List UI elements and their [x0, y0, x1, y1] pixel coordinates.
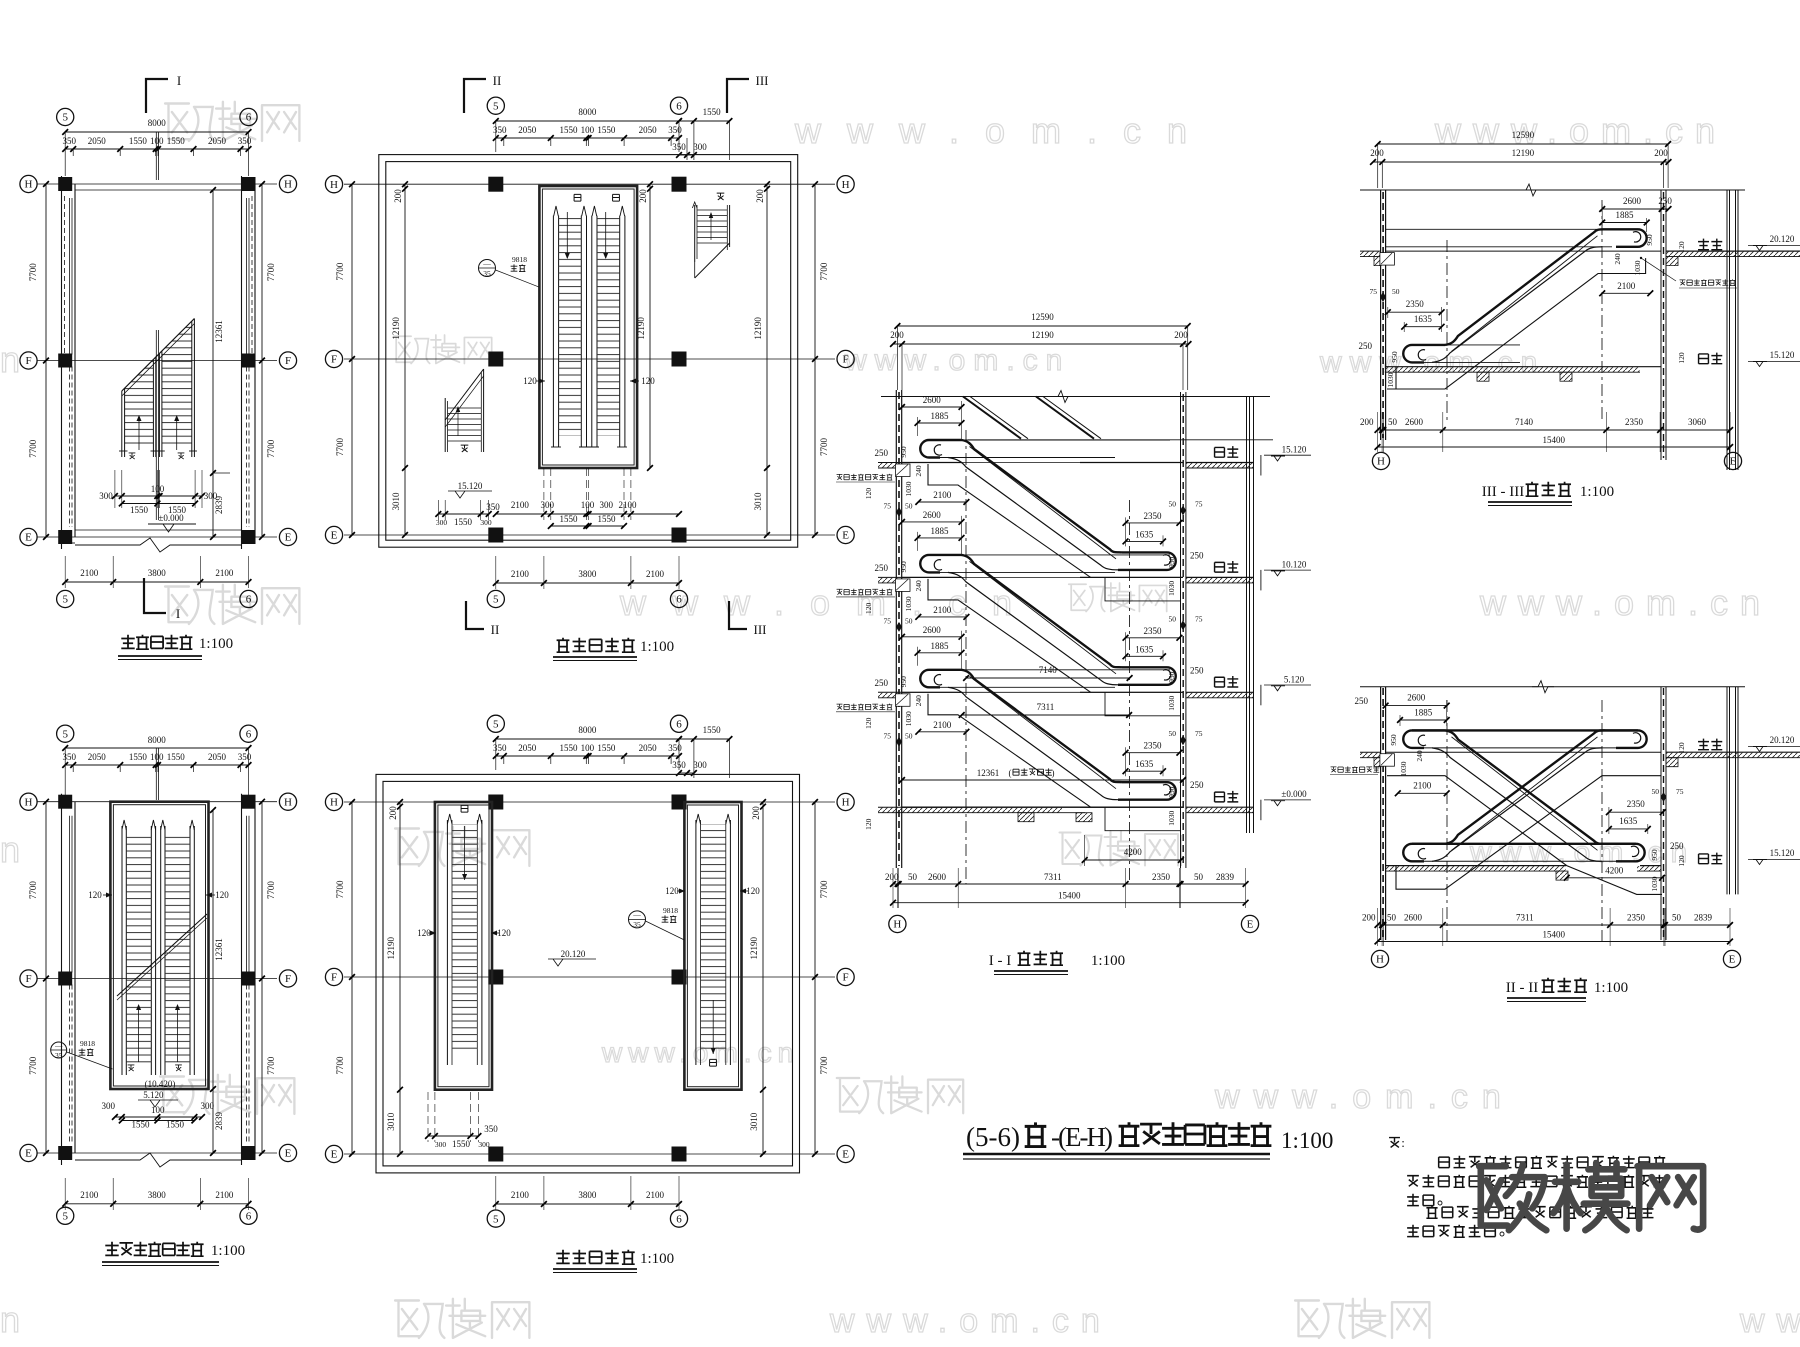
- svg-text:6: 6: [246, 1211, 252, 1223]
- plan5 dim row: [496, 755, 679, 757]
- sec33 escalator band: [1403, 345, 1445, 363]
- svg-text:2050: 2050: [88, 136, 107, 146]
- plan1 centre pair line top: [155, 132, 157, 180]
- plan23 right wall: [241, 794, 243, 1165]
- plan5 bubble H left: [325, 793, 342, 810]
- svg-text:250: 250: [875, 678, 889, 688]
- svg-text:240: 240: [1415, 750, 1424, 762]
- svg-text:1550: 1550: [454, 517, 473, 527]
- svg-text:2050: 2050: [518, 743, 537, 753]
- svg-text:www.om.cn: www.om.cn: [1434, 110, 1727, 151]
- svg-text:15400: 15400: [1543, 435, 1566, 445]
- svg-text:75: 75: [1370, 287, 1378, 296]
- plan23 column F5: [58, 972, 72, 986]
- svg-text:2600: 2600: [1407, 693, 1426, 703]
- sec33 dims 2350 1635: [1388, 311, 1442, 313]
- plan4 bubble H left: [325, 176, 342, 193]
- svg-text:): ): [1052, 768, 1055, 778]
- svg-text:100: 100: [581, 125, 595, 135]
- watermark row 1: [165, 102, 299, 141]
- svg-text:www.om.cn: www.om.cn: [1739, 1302, 1800, 1340]
- svg-text:250: 250: [1658, 196, 1672, 206]
- sec22 top cut line: [1360, 686, 1745, 688]
- plan23 bubble 6 top: [240, 725, 257, 742]
- svg-text:I: I: [176, 606, 180, 621]
- sec22 bubble H: [1371, 950, 1388, 967]
- svg-text:1885: 1885: [931, 641, 950, 651]
- plan5 dim 7700 left: [351, 802, 353, 1154]
- plan1 escalator label shang right: [178, 453, 185, 459]
- plan23 axis E: [37, 1152, 277, 1154]
- svg-text:www.om.cn: www.om.cn: [829, 1302, 1112, 1340]
- plan4 section mark II bottom: [466, 601, 484, 629]
- plan23 bubble F left: [20, 970, 37, 987]
- plan4 bubble E left: [325, 526, 342, 543]
- svg-text:H: H: [25, 796, 33, 808]
- plan5 dim 8000: [496, 738, 679, 740]
- main title underline: [963, 1153, 1270, 1156]
- plan5 axis H: [344, 801, 835, 803]
- plan5 bubble 6 top: [670, 715, 687, 732]
- svg-text:1:100: 1:100: [1580, 484, 1614, 500]
- svg-text:2839: 2839: [214, 1112, 224, 1131]
- svg-text:100: 100: [581, 500, 595, 510]
- sec11 power inlet labels left: [837, 474, 843, 479]
- svg-text:1:100: 1:100: [640, 1251, 674, 1267]
- svg-text:15400: 15400: [1543, 930, 1566, 940]
- svg-text:15.120: 15.120: [1770, 848, 1795, 858]
- plan4 outer wall: [379, 155, 798, 548]
- plan5 dim 12190 3010 right: [762, 802, 764, 1154]
- plan4 bottom-left stair: [444, 398, 446, 452]
- svg-text:7700: 7700: [335, 262, 345, 281]
- svg-text:1030: 1030: [1167, 581, 1176, 596]
- svg-text:F: F: [331, 972, 337, 984]
- sec11 escalator 1F-2F: [940, 669, 1170, 671]
- plan1 wall lines under H and above E: [75, 189, 242, 191]
- sec11 top dim 12190 and 200s: [893, 343, 1189, 345]
- sec22 escalator band down (left high to right low): [1403, 730, 1445, 748]
- svg-text:8000: 8000: [148, 118, 167, 128]
- plan1 title: [121, 635, 134, 649]
- svg-text:5.120: 5.120: [1284, 674, 1305, 684]
- svg-text:12190: 12190: [636, 317, 646, 340]
- svg-text:2100: 2100: [511, 1190, 530, 1200]
- svg-text:50: 50: [1169, 729, 1177, 738]
- sec22 floor5 line and slabs: [1386, 751, 1661, 753]
- svg-text:5: 5: [62, 1211, 68, 1223]
- svg-text:1:100: 1:100: [640, 639, 674, 655]
- sec22 bubble E: [1723, 950, 1740, 967]
- plan1 right wall: [241, 176, 243, 549]
- sec22 wall niche floor5: [1380, 754, 1395, 767]
- svg-text:2839: 2839: [1216, 872, 1235, 882]
- sec22 power inlet label left: [1331, 767, 1337, 772]
- plan1 bubble 5 bottom: [57, 590, 74, 607]
- plan23 title: [105, 1242, 118, 1256]
- plan5 left shaft escalator: [446, 820, 448, 1065]
- plan1 escalator up arrows: [138, 417, 140, 450]
- svg-text:III - III: III - III: [1482, 484, 1524, 500]
- svg-text:E: E: [285, 532, 292, 544]
- svg-text:E: E: [842, 1149, 849, 1161]
- svg-text:3060: 3060: [1688, 417, 1707, 427]
- plan4 dim 200 12190 right inner: [649, 184, 651, 468]
- svg-text:—: —: [54, 1041, 63, 1050]
- plan5 outer wall: [376, 774, 800, 1173]
- svg-text:250: 250: [1190, 665, 1204, 675]
- svg-text:2600: 2600: [1405, 417, 1424, 427]
- svg-text:I - I: I - I: [989, 953, 1012, 969]
- svg-text:300: 300: [480, 518, 492, 527]
- plan1 axis E: [37, 536, 277, 538]
- svg-text:F: F: [285, 355, 291, 367]
- plan1 bubble F right: [279, 352, 296, 369]
- plan4 bottom centre dims: [496, 513, 679, 515]
- svg-text:2050: 2050: [518, 125, 537, 135]
- svg-text:1:100: 1:100: [1091, 953, 1125, 969]
- svg-text:E: E: [1730, 456, 1737, 468]
- sec22 escalator band up (left low to right high): [1403, 844, 1445, 862]
- svg-text:250: 250: [1359, 341, 1373, 351]
- svg-text:2600: 2600: [1404, 913, 1423, 923]
- svg-text:E: E: [842, 530, 849, 542]
- svg-text:7311: 7311: [1516, 913, 1534, 923]
- svg-text:15400: 15400: [1058, 891, 1081, 901]
- plan4 axis F: [344, 358, 835, 360]
- svg-text:35: 35: [483, 269, 491, 278]
- svg-text:250: 250: [1190, 550, 1204, 560]
- sec33 dims top right 2600 1885 250: [1602, 208, 1668, 210]
- svg-text:75: 75: [884, 502, 892, 511]
- svg-text:950: 950: [1167, 557, 1176, 569]
- svg-text:2350: 2350: [1406, 299, 1425, 309]
- sec11 escalator 3F-4F: [940, 439, 1170, 441]
- svg-text:12361: 12361: [977, 768, 1000, 778]
- sec33 bottom chain: [1378, 429, 1731, 431]
- svg-text:350: 350: [672, 760, 686, 770]
- svg-text:120: 120: [88, 890, 102, 900]
- svg-text:2100: 2100: [646, 569, 665, 579]
- svg-text:1030: 1030: [1650, 876, 1659, 891]
- plan4 dim 8000: [496, 120, 679, 122]
- plan5 left shaft: [435, 802, 492, 1090]
- svg-text:2350: 2350: [1625, 417, 1644, 427]
- svg-text:2350: 2350: [1627, 913, 1646, 923]
- sec33 dim 2100: [1602, 292, 1650, 294]
- svg-text:250: 250: [875, 448, 889, 458]
- notes line 2: [1407, 1176, 1419, 1187]
- plan1 axis F: [37, 360, 277, 362]
- svg-text:240: 240: [914, 580, 923, 592]
- plan5 bubble H right: [837, 793, 854, 810]
- svg-text:2050: 2050: [88, 752, 107, 762]
- svg-text:www.om.cn: www.om.cn: [1214, 1078, 1515, 1116]
- svg-text:300: 300: [200, 1101, 214, 1111]
- plan5 rail bubble 9818: [629, 911, 646, 928]
- plan23 left wall: [61, 794, 63, 1165]
- plan1 bubble E right: [279, 528, 296, 545]
- svg-text:2100: 2100: [215, 568, 234, 578]
- plan5 left shaft label xia: [461, 805, 468, 812]
- svg-text:50: 50: [1387, 913, 1397, 923]
- svg-text:1:100: 1:100: [1594, 980, 1628, 996]
- svg-text:1030: 1030: [904, 481, 913, 496]
- svg-text:7700: 7700: [266, 1056, 276, 1075]
- svg-text:F: F: [25, 973, 31, 985]
- plan4 stair label shang: [717, 193, 725, 200]
- svg-text:2050: 2050: [208, 752, 227, 762]
- plan4 rail bubble 9818: [479, 260, 496, 277]
- svg-text:5: 5: [493, 100, 499, 112]
- svg-text:350: 350: [238, 752, 252, 762]
- plan5 right shaft label xia: [710, 1059, 717, 1066]
- plan5 columns: [488, 795, 503, 810]
- svg-text:15.120: 15.120: [1282, 445, 1307, 455]
- svg-text:5: 5: [493, 1213, 499, 1225]
- plan5 bubble 5 bottom: [487, 1210, 504, 1227]
- svg-text:350: 350: [486, 502, 500, 512]
- plan23 escalator tips top: [122, 820, 126, 830]
- svg-text:1:100: 1:100: [1281, 1128, 1333, 1153]
- svg-text:—: —: [482, 259, 491, 268]
- sec33 bubble H: [1372, 452, 1389, 469]
- plan4 top-right stair: [694, 205, 696, 262]
- svg-text:www.om.cn: www.om.cn: [0, 829, 32, 870]
- sec11 wall niches at floors: [896, 464, 911, 477]
- plan23 up arrows: [138, 1006, 140, 1062]
- svg-text:120: 120: [1677, 241, 1686, 253]
- svg-text:2050: 2050: [639, 125, 658, 135]
- svg-text:1550: 1550: [167, 136, 186, 146]
- svg-text:6: 6: [676, 1213, 682, 1225]
- plan4 bubble 5 bottom: [487, 590, 504, 607]
- svg-text:350: 350: [62, 136, 76, 146]
- plan4 dim row 350-2050-1550-100-1550-2050-350 +right 1550: [496, 137, 679, 139]
- svg-text:20.120: 20.120: [1770, 234, 1795, 244]
- svg-text:±0.000: ±0.000: [158, 513, 184, 523]
- svg-text:120: 120: [1677, 855, 1686, 867]
- plan4 escalator bottom hooks: [552, 440, 554, 447]
- plan1 bottom dim chain 2100 3800 2100: [65, 581, 248, 583]
- plan23 column E6: [242, 1146, 256, 1160]
- plan1 grid bubble 5 top: [57, 108, 74, 125]
- svg-text:3800: 3800: [578, 1190, 597, 1200]
- svg-text:H: H: [330, 797, 338, 809]
- sec11 floor4 balustrade extension: [968, 439, 1273, 441]
- plan23 escalator feet bottom: [121, 1068, 123, 1075]
- plan23 break symbol bottom: [75, 1153, 242, 1167]
- svg-text:12361: 12361: [214, 320, 224, 343]
- sec11 centreline verticals: [965, 430, 967, 884]
- svg-text:12190: 12190: [749, 936, 759, 959]
- svg-text:2100: 2100: [80, 1190, 99, 1200]
- plan23 dim 7700 left: [45, 802, 47, 1153]
- sec11 left wall: [895, 390, 897, 868]
- svg-text:75: 75: [1195, 614, 1203, 623]
- svg-text:250: 250: [875, 563, 889, 573]
- svg-text:2050: 2050: [208, 136, 227, 146]
- big grey watermark oumowang: [1479, 1163, 1703, 1230]
- sec22 right wall: [1660, 687, 1662, 940]
- svg-text:15.120: 15.120: [1770, 350, 1795, 360]
- svg-text:7311: 7311: [1037, 702, 1055, 712]
- svg-text:E: E: [25, 532, 32, 544]
- plan1 dim 8000: [65, 131, 248, 133]
- plan23 shaft border: [110, 802, 208, 1089]
- svg-text:120: 120: [864, 818, 873, 830]
- svg-text:50: 50: [1169, 614, 1177, 623]
- svg-text:250: 250: [1355, 696, 1369, 706]
- svg-text:6: 6: [246, 594, 252, 606]
- plan4 bubble F right: [837, 350, 854, 367]
- svg-text:1030: 1030: [1399, 761, 1408, 776]
- svg-text:7700: 7700: [819, 438, 829, 457]
- sec11 top dim 12590: [897, 325, 1187, 327]
- plan4 escalator rungs: [559, 218, 582, 436]
- plan4 label xia x2: [574, 194, 581, 201]
- svg-text:2600: 2600: [928, 872, 947, 882]
- svg-text:250: 250: [1670, 841, 1684, 851]
- sec33 floor4 line and slab: [1386, 366, 1661, 368]
- svg-text:250: 250: [1190, 780, 1204, 790]
- plan5 bubble F right: [837, 968, 854, 985]
- svg-text:6: 6: [676, 594, 682, 606]
- svg-text:2100: 2100: [80, 568, 99, 578]
- svg-text:H: H: [842, 797, 850, 809]
- plan4 section mark III bottom: [729, 601, 747, 629]
- sec11 left dims escalator1: [902, 406, 962, 408]
- plan4 section mark III top: [727, 79, 749, 113]
- svg-text:F: F: [843, 354, 849, 366]
- svg-text:1885: 1885: [931, 411, 950, 421]
- svg-text:100: 100: [150, 752, 164, 762]
- sec11 bottom dim chain: [893, 883, 1246, 885]
- svg-text:120: 120: [523, 376, 537, 386]
- svg-text:1635: 1635: [1414, 314, 1433, 324]
- svg-text:50: 50: [905, 731, 913, 740]
- plan23 bottom chain 2100 3800 2100: [65, 1203, 248, 1205]
- svg-text:7700: 7700: [266, 439, 276, 458]
- svg-text:12590: 12590: [1512, 130, 1535, 140]
- svg-text:12190: 12190: [386, 936, 396, 959]
- svg-text:7700: 7700: [28, 439, 38, 458]
- svg-text:H: H: [330, 179, 338, 191]
- svg-text:2100: 2100: [1413, 781, 1432, 791]
- plan1 break symbol bottom: [75, 538, 242, 552]
- plan5 dim 7700 right: [814, 802, 816, 1154]
- svg-text:2100: 2100: [511, 500, 530, 510]
- svg-text:1885: 1885: [931, 526, 950, 536]
- svg-text:E: E: [1729, 954, 1736, 966]
- svg-text:3010: 3010: [391, 492, 401, 511]
- svg-text:3010: 3010: [753, 492, 763, 511]
- watermark row 5: [160, 1075, 294, 1114]
- plan23 dim 12361 2839: [212, 810, 214, 1153]
- notes header zhu: [1389, 1138, 1400, 1148]
- plan1 section mark I bottom: [144, 578, 166, 613]
- sec33 floor5 line and slabs: [1386, 250, 1661, 252]
- svg-text:III: III: [756, 73, 769, 88]
- svg-text:—: —: [632, 910, 641, 919]
- svg-text:1550: 1550: [132, 1120, 151, 1130]
- svg-text:7700: 7700: [819, 262, 829, 281]
- svg-text:300: 300: [541, 500, 555, 510]
- svg-text:2350: 2350: [1144, 511, 1163, 521]
- svg-text:50: 50: [1392, 287, 1400, 296]
- svg-text:300: 300: [435, 1140, 447, 1149]
- plan5 dim 12190 3010 left: [399, 802, 401, 1154]
- svg-text:300: 300: [478, 1140, 490, 1149]
- sec33 left wall: [1380, 190, 1382, 440]
- svg-text:300: 300: [600, 500, 614, 510]
- plan23 axis H: [37, 801, 277, 803]
- svg-text:5.120: 5.120: [143, 1090, 164, 1100]
- plan23 bubble H right: [279, 793, 296, 810]
- svg-text:120: 120: [864, 488, 873, 500]
- svg-text:950: 950: [1389, 734, 1398, 746]
- plan4 escalator tips: [554, 206, 559, 216]
- svg-text:350: 350: [668, 743, 682, 753]
- svg-text:1550: 1550: [560, 125, 579, 135]
- svg-text:E: E: [331, 530, 338, 542]
- plan4 bubble E right: [837, 526, 854, 543]
- svg-text:12590: 12590: [1031, 312, 1054, 322]
- plan4 escalator rails: [552, 216, 554, 440]
- sec33 level 15.120: [1748, 361, 1800, 363]
- sec33 right wall: [1660, 190, 1662, 460]
- svg-text:120: 120: [864, 603, 873, 615]
- plan5 bubble 6 bottom: [670, 1210, 687, 1227]
- svg-text:950: 950: [1167, 786, 1176, 798]
- svg-text:200: 200: [388, 806, 398, 820]
- svg-text:75: 75: [884, 616, 892, 625]
- svg-text:120: 120: [215, 890, 229, 900]
- plan23 dim 8000: [65, 747, 248, 749]
- sec11 right dims esc2: [1126, 637, 1180, 639]
- sec22 floor4 line and slab: [1386, 865, 1566, 867]
- svg-text:1550: 1550: [129, 136, 148, 146]
- svg-text:200: 200: [393, 189, 403, 203]
- plan23 escalator rungs: [126, 832, 151, 1068]
- svg-text:III: III: [754, 622, 767, 637]
- svg-text:3010: 3010: [386, 1112, 396, 1131]
- svg-text:200: 200: [751, 806, 761, 820]
- plan5 bubble E left: [325, 1145, 342, 1162]
- sec11 left dims escalator2: [902, 521, 962, 523]
- plan23 dim row 350-2050-1550-100-1550-2050-350: [65, 764, 248, 766]
- svg-text:50: 50: [1388, 417, 1398, 427]
- svg-text:8000: 8000: [578, 725, 597, 735]
- svg-text:7700: 7700: [335, 438, 345, 457]
- sec22 far wall: [1726, 687, 1728, 895]
- svg-text:2600: 2600: [923, 510, 942, 520]
- plan1 escalator diagonal edges: [122, 319, 195, 392]
- svg-text:www.om.cn: www.om.cn: [794, 110, 1213, 151]
- plan1 escalator rails: [121, 391, 123, 451]
- svg-text:120: 120: [1677, 352, 1686, 364]
- svg-text:6: 6: [246, 112, 252, 124]
- svg-text:200: 200: [1370, 148, 1384, 158]
- plan1 column H5: [58, 177, 72, 191]
- plan23 bubble 5 top: [57, 725, 74, 742]
- svg-text:www.om.cn: www.om.cn: [1479, 582, 1772, 623]
- plan23 bubble E right: [279, 1144, 296, 1161]
- svg-text:H: H: [842, 179, 850, 191]
- sec11 right dims esc3: [1126, 752, 1180, 754]
- svg-text:2350: 2350: [1144, 626, 1163, 636]
- plan5 bottom chain: [496, 1203, 679, 1205]
